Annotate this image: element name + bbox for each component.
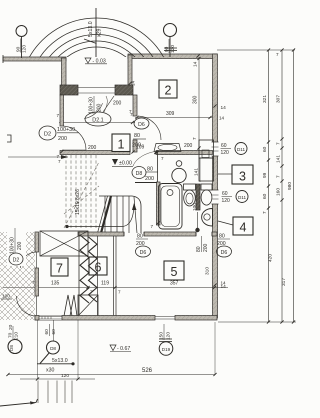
svg-text:7: 7 — [57, 113, 60, 118]
partition wall room6/5 — [113, 236, 115, 316]
hall left wall — [60, 95, 64, 126]
level mark -0.67 — [110, 345, 116, 351]
tall triangles closet — [64, 295, 72, 316]
svg-text:x29: x29 — [97, 29, 103, 37]
svg-text:15x19.8x26: 15x19.8x26 — [75, 189, 81, 215]
label D2.1 — [85, 112, 111, 126]
entrance door leaf — [103, 96, 114, 112]
svg-text:120: 120 — [170, 45, 176, 53]
svg-text:D11: D11 — [238, 195, 247, 200]
svg-text:D11: D11 — [237, 147, 246, 152]
tick 14 top wall — [196, 54, 199, 57]
svg-text:7: 7 — [56, 262, 63, 276]
toilet WC1 — [184, 184, 196, 190]
entrance pier left — [60, 85, 78, 95]
porch right side wall — [128, 55, 132, 86]
entrance pier right — [115, 85, 133, 95]
porch left side wall — [62, 58, 67, 88]
steps dim line — [20, 378, 95, 380]
svg-text:7: 7 — [151, 224, 154, 229]
bathroom top wall line — [135, 182, 157, 184]
door D2 swing — [63, 126, 86, 150]
svg-text:526: 526 — [142, 368, 153, 374]
partition wall bathroom — [196, 184, 200, 210]
svg-text:1: 1 — [118, 138, 125, 152]
bottom overall dim line 526 — [8, 374, 215, 376]
room 3 number box — [232, 165, 253, 184]
svg-text:D2: D2 — [44, 132, 51, 138]
svg-text:7: 7 — [129, 109, 132, 114]
room 6 number box — [89, 257, 107, 275]
hall right wall with door D6 — [133, 95, 137, 116]
lower stair solid — [99, 196, 141, 233]
svg-text:60: 60 — [51, 329, 57, 335]
tick 14 right wall upper — [213, 104, 216, 107]
wardrobe with X — [40, 231, 88, 256]
svg-text:307: 307 — [276, 95, 282, 103]
right dim line B — [281, 50, 283, 322]
svg-text:200: 200 — [58, 136, 67, 142]
svg-text:120: 120 — [222, 198, 231, 204]
counter closets right wall — [199, 140, 214, 158]
svg-text:120: 120 — [61, 373, 69, 379]
bottom window sill — [155, 316, 175, 318]
bathtub — [159, 184, 183, 230]
terrace lower door swing — [17, 296, 37, 316]
svg-text:420: 420 — [268, 254, 274, 262]
svg-text:120: 120 — [22, 45, 28, 53]
svg-text:7: 7 — [276, 175, 281, 178]
bottom wall opening left — [39, 316, 62, 321]
svg-text:7: 7 — [276, 52, 279, 57]
svg-text:14: 14 — [221, 281, 227, 286]
label 100+30/200 D2 rotated terrace — [7, 224, 26, 266]
dim 141 rotated — [199, 158, 201, 182]
svg-text:80: 80 — [134, 133, 140, 139]
svg-text:80: 80 — [219, 234, 225, 240]
level mark -0.03 — [85, 58, 91, 63]
svg-text:7: 7 — [118, 290, 121, 295]
svg-text:60: 60 — [262, 146, 268, 152]
svg-text:x30: x30 — [46, 368, 54, 374]
svg-text:D19: D19 — [162, 347, 171, 352]
svg-text:7: 7 — [161, 156, 164, 161]
stair arrow diagonal — [84, 39, 97, 44]
zigzag closet wall — [80, 235, 97, 303]
svg-text:60: 60 — [44, 329, 50, 335]
washbasin on wall — [154, 144, 181, 152]
exterior step edges — [37, 381, 39, 404]
svg-text:160: 160 — [276, 188, 282, 196]
right dim line A — [268, 50, 270, 322]
svg-text:357: 357 — [170, 281, 179, 287]
svg-text:100: 100 — [2, 294, 10, 300]
svg-text:14: 14 — [193, 61, 199, 67]
svg-text:5x13.0: 5x13.0 — [88, 21, 94, 37]
svg-text:100+30: 100+30 — [10, 237, 16, 254]
svg-text:60: 60 — [221, 143, 227, 149]
svg-text:D8: D8 — [136, 171, 143, 177]
svg-text:3: 3 — [239, 170, 246, 184]
svg-text:7: 7 — [90, 290, 93, 295]
lower closet with diagonal — [78, 295, 98, 316]
room 4 number box — [233, 217, 253, 235]
svg-text:200: 200 — [203, 243, 209, 252]
svg-text:7: 7 — [262, 211, 267, 214]
svg-text:200: 200 — [97, 103, 103, 112]
right dim line C overall — [293, 50, 295, 322]
front wall right section — [128, 54, 217, 59]
svg-text:100+30: 100+30 — [57, 127, 75, 133]
svg-text:980: 980 — [287, 182, 293, 190]
room 7 number box — [51, 258, 68, 276]
toilet WC2 — [201, 184, 212, 190]
semicircular entrance steps — [24, 18, 169, 79]
front wall left wing — [3, 57, 66, 61]
svg-text:200: 200 — [113, 101, 122, 107]
stair direction line — [95, 8, 97, 57]
svg-text:109: 109 — [136, 145, 145, 151]
room 1 number box — [112, 134, 130, 152]
svg-text:120: 120 — [221, 150, 230, 156]
svg-text:D6: D6 — [140, 250, 147, 256]
room 2 dim line 309 — [135, 117, 212, 119]
label D6 80/200 — [134, 118, 149, 129]
porch dim line — [59, 122, 135, 124]
svg-text:7: 7 — [192, 137, 197, 140]
svg-text:D6: D6 — [221, 250, 228, 256]
svg-text:317: 317 — [281, 278, 287, 286]
svg-text:200: 200 — [17, 241, 23, 250]
right dim connector top — [217, 49, 295, 51]
svg-text:300: 300 — [193, 95, 199, 104]
window 60/120 lower in right wall — [212, 190, 219, 204]
door hinge dot bathroom — [195, 228, 199, 232]
entrance door D2.1 threshold — [78, 87, 115, 89]
svg-text:5x13.0: 5x13.0 — [52, 358, 68, 364]
svg-text:119: 119 — [101, 281, 109, 287]
svg-text:200: 200 — [88, 145, 97, 151]
svg-text:2: 2 — [165, 84, 172, 98]
stair walking line — [67, 206, 134, 227]
left guide line with arrow — [8, 156, 68, 158]
path diagonal bottom left — [0, 399, 38, 406]
svg-text:D8: D8 — [9, 345, 14, 351]
interior wall above rooms 5/6 — [78, 232, 124, 236]
terrace door D2 swing — [20, 252, 35, 268]
tick 14 right wall lower — [213, 283, 216, 286]
svg-text:80: 80 — [137, 234, 143, 240]
window 60/120 upper in right wall — [212, 142, 219, 156]
right exterior wall — [213, 54, 218, 318]
svg-text:14: 14 — [219, 116, 225, 121]
door jambs wall y232 — [123, 232, 125, 236]
svg-text:321: 321 — [262, 95, 268, 103]
svg-text:14: 14 — [221, 105, 227, 111]
right dim connector bottom — [218, 321, 296, 323]
svg-text:- 0.67: - 0.67 — [117, 346, 130, 352]
svg-text:60: 60 — [262, 193, 268, 199]
svg-text:60: 60 — [222, 191, 228, 197]
svg-text:5: 5 — [171, 265, 178, 279]
post left 90/120 — [16, 26, 27, 37]
interior wall below hall — [60, 151, 130, 155]
door D6 swing — [138, 116, 161, 140]
door D8 label — [132, 167, 146, 179]
svg-text:70: 70 — [8, 332, 14, 338]
svg-text:141: 141 — [194, 168, 200, 176]
washbasin round — [202, 209, 213, 227]
svg-text:135: 135 — [51, 281, 60, 287]
dim line rooms 5/6/7 — [3, 287, 228, 289]
upper stair flight dashed treads — [64, 155, 99, 228]
svg-text:309: 309 — [166, 111, 175, 117]
svg-text:7: 7 — [58, 159, 61, 164]
svg-text:4: 4 — [240, 221, 247, 235]
svg-text:310: 310 — [205, 267, 211, 275]
svg-text:D2: D2 — [13, 258, 20, 264]
svg-text:80: 80 — [147, 167, 153, 173]
bracket top left — [7, 135, 11, 142]
bottom exterior wall — [35, 316, 155, 321]
svg-text:141: 141 — [276, 155, 282, 163]
room 5 number box — [164, 261, 184, 280]
svg-text:100: 100 — [192, 203, 198, 211]
level mark +-0.00 — [112, 159, 118, 165]
svg-text:100+30: 100+30 — [89, 97, 95, 114]
stair break line thick — [101, 196, 111, 233]
bathroom left wall — [157, 152, 159, 182]
svg-text:210: 210 — [14, 332, 20, 340]
terrace left wall — [35, 232, 39, 252]
post right 90/120 — [164, 24, 177, 37]
terrace cross hatch — [0, 232, 178, 320]
room 2 vertical dim 300 — [198, 57, 200, 150]
svg-text:D6: D6 — [138, 122, 145, 128]
label D2 with 100+30/200 — [39, 126, 56, 140]
boiler — [172, 168, 186, 182]
svg-text:±0.00: ±0.00 — [119, 161, 132, 167]
svg-text:D8: D8 — [50, 346, 56, 351]
svg-text:7: 7 — [276, 142, 281, 145]
room 2 number box — [159, 80, 177, 98]
svg-text:200: 200 — [145, 176, 154, 182]
svg-text:99: 99 — [262, 172, 268, 178]
svg-text:80: 80 — [196, 246, 202, 252]
svg-text:200: 200 — [184, 143, 193, 149]
